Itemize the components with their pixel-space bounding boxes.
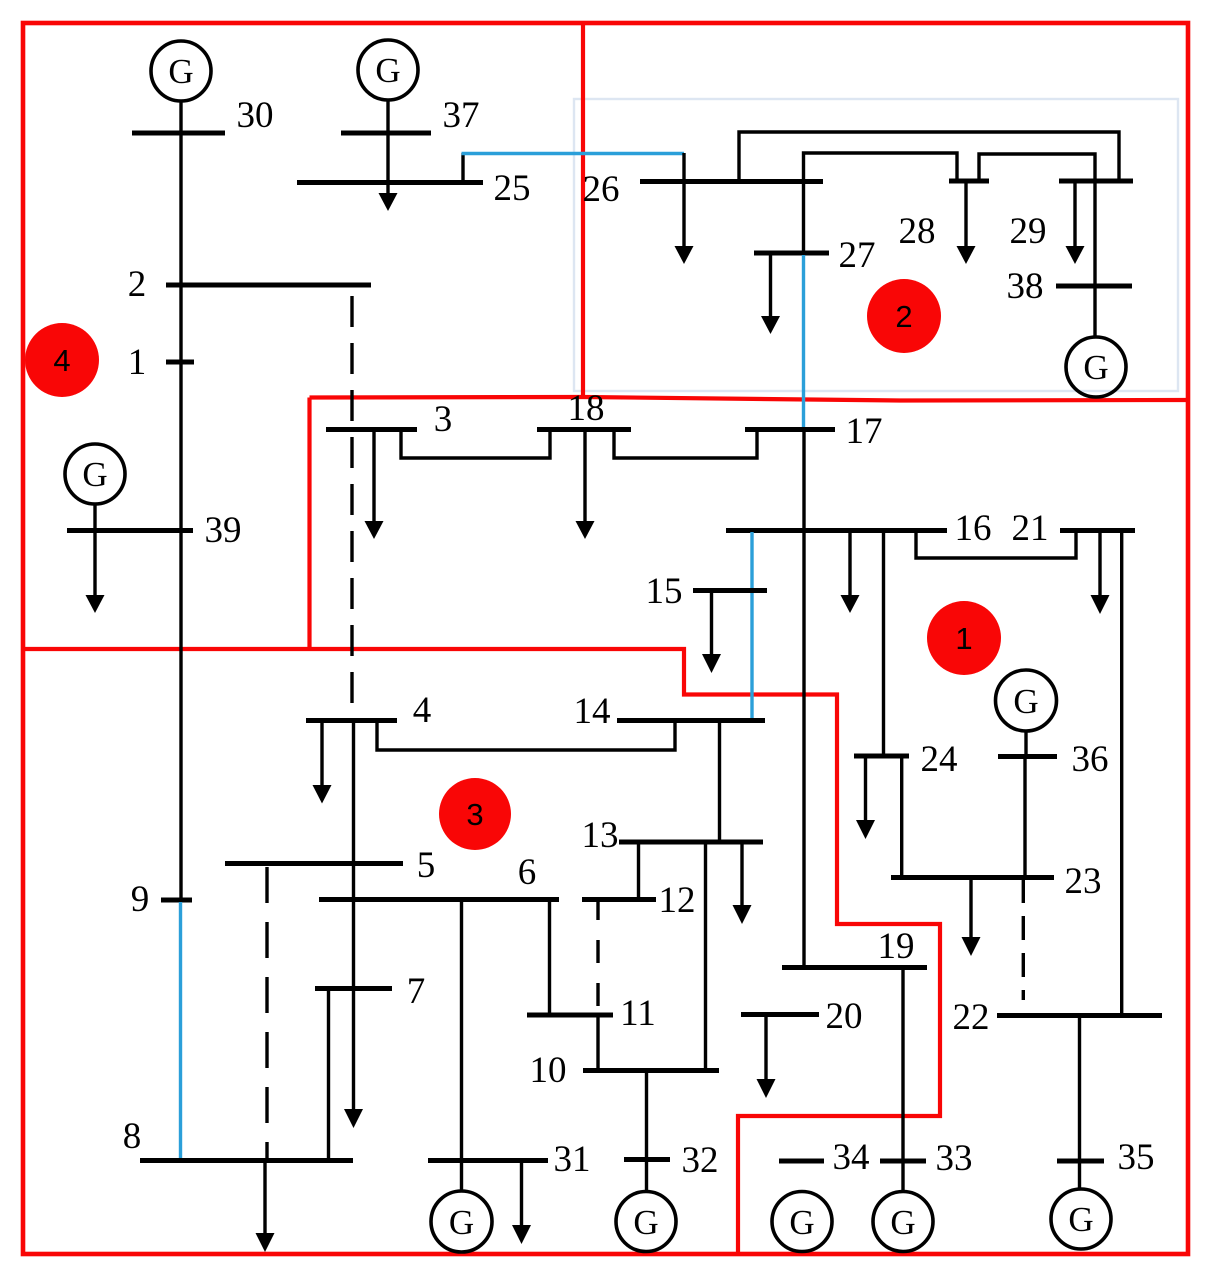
bus 31: [428, 1158, 548, 1163]
svg-text:38: 38: [1007, 266, 1044, 307]
load arrow at bus 39: [93, 530, 96, 596]
svg-text:18: 18: [568, 388, 605, 429]
load arrow at bus 18: [583, 429, 586, 522]
wire bus 17 down through bus 16 to bus 19: [802, 429, 805, 966]
svg-text:22: 22: [953, 997, 990, 1038]
dashed line 23-22: [1022, 879, 1025, 1000]
wire bus 38 to G38: [1093, 286, 1096, 337]
faint inner box around zone 2: [574, 99, 1178, 391]
load arrow at bus 25: [386, 181, 389, 194]
bus 34: [779, 1159, 824, 1164]
svg-text:4: 4: [53, 343, 70, 378]
wire G37 to bus 37 to bus 25: [386, 100, 389, 181]
bus 27: [754, 251, 829, 256]
svg-text:G: G: [1083, 348, 1108, 387]
line 27-28 loop over bus 26: [804, 153, 958, 253]
svg-text:9: 9: [131, 879, 150, 920]
svg-text:31: 31: [554, 1139, 591, 1180]
wire G30 to bus 30 down through buses 2, 1, 39 to bus 9: [179, 101, 182, 900]
line 14-13: [718, 720, 721, 842]
svg-text:33: 33: [936, 1138, 973, 1179]
bus 33: [880, 1159, 926, 1164]
dashed line 12-11: [596, 897, 599, 1015]
wire G39 to bus 39: [93, 504, 96, 530]
bus 28: [949, 179, 989, 184]
line 19-33 down to G33: [901, 967, 904, 1191]
svg-text:29: 29: [1010, 211, 1047, 252]
bus 15: [693, 588, 767, 593]
svg-text:6: 6: [518, 852, 537, 893]
svg-text:G: G: [375, 51, 400, 90]
line 27-17 (blue tie): [802, 255, 805, 429]
bus 39: [67, 528, 193, 533]
bus 24: [854, 754, 909, 759]
bus 1: [166, 360, 194, 365]
svg-text:21: 21: [1012, 508, 1049, 549]
svg-text:G: G: [449, 1203, 474, 1242]
load arrow at bus 28: [964, 181, 967, 247]
line 13-10: [704, 842, 707, 1070]
line 16-21 loop: [916, 530, 1076, 558]
load arrow at bus 3: [372, 429, 375, 522]
bus 37: [341, 131, 431, 136]
bus 12: [582, 897, 656, 902]
bus 20: [741, 1012, 819, 1017]
zone 1 marker: [927, 601, 1001, 675]
svg-text:14: 14: [574, 691, 611, 732]
line 29-38: [1093, 181, 1096, 287]
generator G37: [358, 40, 418, 100]
load arrow at bus 29: [1073, 181, 1076, 247]
svg-text:G: G: [890, 1203, 915, 1242]
line 24-23: [900, 756, 903, 877]
svg-text:G: G: [633, 1203, 658, 1242]
bus 32: [624, 1157, 670, 1162]
line 26-29 upper loop: [739, 132, 1119, 181]
wire riser bus 25 to line 25-26: [461, 153, 464, 181]
line 13-12: [637, 842, 640, 900]
bus 14: [617, 718, 765, 723]
load arrow at bus 16: [848, 530, 851, 596]
bus 5: [225, 861, 403, 866]
bus 18: [537, 427, 631, 432]
wire riser line 25-26 down to bus 26 and load arrow at bus 26: [682, 153, 685, 247]
svg-text:39: 39: [205, 510, 242, 551]
load arrow at bus 13: [740, 842, 743, 906]
load arrow at bus 31: [520, 1160, 523, 1226]
svg-text:17: 17: [846, 411, 883, 452]
svg-text:13: 13: [582, 815, 619, 856]
line 9-8 (blue tie): [179, 902, 182, 1158]
bus 36: [998, 754, 1057, 759]
generator G31: [431, 1191, 492, 1252]
svg-text:3: 3: [466, 797, 483, 832]
line 36-23: [1023, 757, 1026, 878]
load arrow at bus 24: [864, 756, 867, 821]
svg-text:3: 3: [434, 399, 453, 440]
load arrow at bus 20: [764, 1014, 767, 1080]
bus 8: [140, 1158, 353, 1163]
svg-text:G: G: [789, 1203, 814, 1242]
svg-text:1: 1: [128, 342, 147, 383]
svg-text:34: 34: [833, 1137, 870, 1178]
svg-text:19: 19: [878, 926, 915, 967]
svg-text:25: 25: [494, 168, 531, 209]
svg-text:10: 10: [530, 1050, 567, 1091]
bus 11: [527, 1013, 613, 1018]
wire G36 to bus 36: [1024, 731, 1027, 757]
svg-text:36: 36: [1072, 739, 1109, 780]
bus 13: [619, 840, 763, 845]
generator G39: [65, 444, 125, 504]
line 7-8: [327, 988, 330, 1159]
bus 19: [782, 965, 927, 970]
svg-text:5: 5: [417, 845, 436, 886]
svg-text:2: 2: [128, 264, 147, 305]
svg-text:15: 15: [646, 571, 683, 612]
dashed line 5-8: [265, 867, 268, 1160]
svg-text:28: 28: [899, 211, 936, 252]
bus 38: [1056, 284, 1132, 289]
line 21-22: [1120, 530, 1123, 1015]
generator G30: [151, 41, 211, 101]
line 28-29 loop: [979, 154, 1095, 181]
svg-text:12: 12: [659, 880, 696, 921]
line 6-31 down to G31: [460, 900, 463, 1192]
svg-text:G: G: [1013, 682, 1038, 721]
svg-text:G: G: [168, 52, 193, 91]
line 6-11: [548, 900, 551, 1015]
svg-text:35: 35: [1118, 1137, 1155, 1178]
dashed line 2-3-4: [350, 296, 353, 720]
bus 17: [745, 427, 835, 432]
line 16-24: [882, 530, 885, 756]
svg-text:1: 1: [955, 621, 972, 656]
line 3-18 loop: [401, 429, 550, 458]
zone 4 marker: [25, 323, 99, 397]
bus 23: [891, 875, 1054, 880]
svg-text:24: 24: [921, 739, 958, 780]
bus 7: [315, 986, 392, 991]
bus 21: [1060, 528, 1135, 533]
svg-text:27: 27: [839, 235, 876, 276]
generator G33: [873, 1192, 933, 1252]
bus 35: [1057, 1159, 1104, 1164]
svg-text:23: 23: [1065, 861, 1102, 902]
zone 3 marker: [439, 778, 511, 850]
bus 3: [326, 427, 417, 432]
line 18-17 loop: [614, 429, 757, 458]
line 16-15-14 (blue tie): [750, 532, 753, 718]
zone boundary: vertical between zone 4 and zone 3 top corner: [307, 398, 311, 650]
svg-text:11: 11: [620, 993, 656, 1034]
load arrow at bus 8: [263, 1160, 266, 1234]
wire bus 4 through buses 5,6,7 ending in load arrow of bus 7: [352, 720, 355, 1110]
bus 16: [726, 528, 947, 533]
zone boundary: stepped path separating zone 3 and zone 1: [23, 649, 940, 1253]
load arrow at bus 23: [969, 877, 972, 938]
bus 10: [583, 1068, 719, 1073]
svg-text:30: 30: [237, 95, 274, 136]
load arrow at bus 21: [1098, 530, 1101, 596]
line 11-10: [596, 1015, 599, 1070]
svg-text:2: 2: [895, 299, 912, 334]
bus 6: [319, 897, 559, 902]
svg-text:16: 16: [955, 508, 992, 549]
line 25-26 (blue tie): [462, 152, 685, 155]
bus 2: [166, 283, 371, 288]
generator G35: [1051, 1189, 1111, 1249]
svg-text:37: 37: [443, 95, 480, 136]
bus 9: [161, 898, 192, 903]
bus 30: [132, 131, 225, 136]
svg-text:20: 20: [826, 996, 863, 1037]
line 22-35 down to G35: [1078, 1016, 1081, 1190]
svg-text:G: G: [1068, 1200, 1093, 1239]
svg-text:32: 32: [682, 1140, 719, 1181]
bus 26: [640, 179, 823, 184]
svg-text:G: G: [82, 455, 107, 494]
svg-text:26: 26: [583, 169, 620, 210]
bus 22: [997, 1013, 1162, 1018]
bus 25: [297, 180, 483, 185]
svg-text:7: 7: [407, 971, 426, 1012]
svg-text:4: 4: [413, 690, 432, 731]
generator G36: [996, 670, 1057, 731]
bus 29: [1059, 179, 1133, 184]
load arrow at bus 4: [320, 720, 323, 786]
zone 2 marker: [867, 279, 941, 353]
svg-text:8: 8: [123, 1116, 142, 1157]
bus 4: [306, 718, 397, 723]
load arrow at bus 27: [769, 253, 772, 317]
line 4-14 loop: [377, 720, 675, 750]
line 10-32 down to G32: [645, 1070, 648, 1192]
generator G34: [772, 1192, 832, 1252]
generator G32: [616, 1192, 676, 1252]
generator G38: [1066, 337, 1126, 397]
zone boundary: horizontal divider below zone 2: [310, 397, 1189, 401]
load arrow at bus 15: [710, 590, 713, 655]
zone boundary: vertical divider between zone 4 and zone 2: [581, 21, 585, 399]
